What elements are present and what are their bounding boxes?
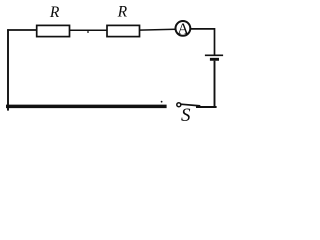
- battery negative plate (short): [210, 58, 219, 61]
- wire bottom-right segment: [196, 106, 217, 108]
- wire ammeter to top-right corner and down: [190, 29, 214, 55]
- node tick between R1 and R2: [87, 31, 89, 33]
- wire R2 to ammeter: [140, 28, 176, 31]
- svg-text:S: S: [181, 105, 191, 124]
- label R (resistor R2): [117, 4, 128, 21]
- wire battery to bottom-right corner: [214, 61, 216, 107]
- switch S pivot contact: [177, 103, 181, 107]
- svg-text:R: R: [49, 4, 60, 21]
- switch S blade: [181, 104, 201, 106]
- wire bottom thick conductor: [6, 105, 167, 109]
- wire top-left segment: [7, 29, 37, 31]
- wire left vertical: [7, 29, 9, 110]
- label S (switch): [181, 105, 191, 126]
- label R (resistor R1): [49, 4, 60, 21]
- wire between R1 and R2: [70, 29, 108, 31]
- battery positive plate (long): [205, 54, 223, 56]
- svg-text:R: R: [117, 4, 128, 21]
- resistor R1: [37, 25, 70, 36]
- node dot near switch: [161, 101, 163, 103]
- resistor R2: [107, 25, 140, 36]
- svg-text:A: A: [177, 20, 189, 38]
- ammeter A (meter U1): [176, 20, 191, 38]
